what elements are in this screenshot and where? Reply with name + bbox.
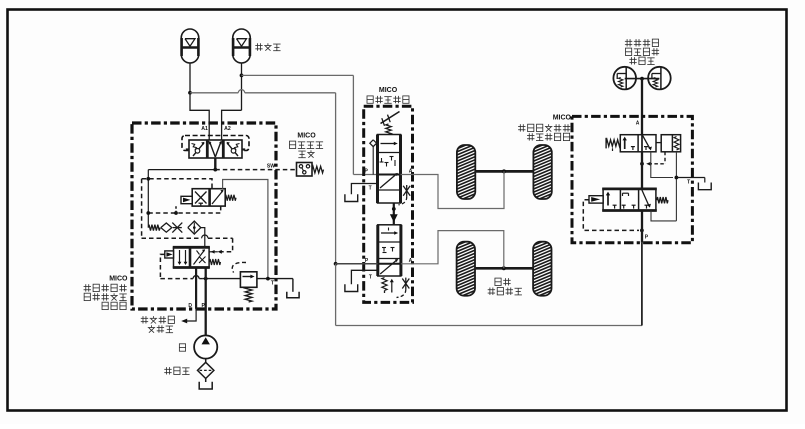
- wire T to tank: [676, 177, 704, 179]
- node pilot tap: [640, 162, 644, 166]
- check valve diamond: [161, 223, 172, 232]
- node SW junction: [213, 168, 217, 172]
- wire bottom loop to parking valve: [336, 325, 642, 327]
- U6 dashed auto-control pilot: [583, 200, 639, 231]
- node front axle: [502, 169, 506, 173]
- U3-U4 interstage line: [393, 203, 395, 225]
- pilot valve U2a dashed supply line: [142, 179, 212, 189]
- relief valve RV1: [240, 272, 257, 288]
- wire A1 feed: [190, 93, 209, 140]
- svg-text:A: A: [409, 169, 413, 175]
- U5 drain to T: [651, 152, 673, 178]
- dashed drain line: [148, 206, 220, 213]
- rear axle: [475, 267, 533, 270]
- dashed left riser: [141, 179, 143, 238]
- wire U2a return loop: [223, 180, 268, 279]
- wire from SW node left and down: [148, 169, 215, 171]
- MICO accumulator charging valve dash-dot box: [132, 123, 276, 309]
- wire A line through box: [641, 135, 643, 152]
- wire SW dashed to pressure switch: [215, 169, 296, 171]
- pressure switch S1: [297, 163, 313, 177]
- spool pilot right: [209, 251, 217, 253]
- svg-text:SW: SW: [267, 164, 275, 170]
- front axle: [475, 170, 533, 173]
- shuttle/check valve U1 pilot dashed box: [182, 136, 249, 151]
- T line to relief: [203, 278, 241, 280]
- wire to rear axle: [401, 231, 504, 269]
- U3 throttle X: [403, 186, 410, 196]
- svg-text:D: D: [188, 303, 192, 309]
- spring brake B1: [613, 67, 636, 90]
- suction filter F2: [198, 362, 214, 378]
- accumulator ACC2: [233, 29, 251, 63]
- label accumulator 蓄能器: [256, 43, 258, 50]
- pilot arrow box: [181, 196, 192, 203]
- accumulator ACC1: [181, 29, 199, 63]
- node brake tee: [640, 77, 644, 81]
- svg-text:MICO: MICO: [297, 133, 316, 140]
- U4 T drain: [351, 270, 377, 284]
- dashed drain left of spool: [160, 254, 164, 278]
- node acc2 junction: [240, 74, 244, 78]
- wire down to bottom loop: [335, 264, 337, 326]
- wire P port bold to pump: [205, 268, 207, 336]
- node lower valve P tap: [334, 262, 338, 266]
- wire shuttle out: [214, 158, 216, 170]
- charging spool U2 body: [174, 247, 210, 267]
- node acc1 junction: [188, 91, 192, 95]
- P-A line through U3: [378, 174, 401, 176]
- tank T4: [345, 284, 358, 291]
- wire row to spool: [201, 228, 205, 248]
- MICO parking brake valve dash-dot box: [572, 116, 692, 242]
- svg-text:A: A: [409, 258, 413, 264]
- P-A line through U4: [336, 263, 378, 265]
- U5 solenoid/pilot block right: [661, 135, 680, 152]
- dashed pilot sense line: [142, 237, 202, 239]
- node rear axle: [502, 266, 506, 270]
- check/orifice/filter row: [148, 225, 160, 231]
- label spring brake: [626, 39, 628, 46]
- to other systems arrow: [185, 309, 196, 321]
- wire to front axle: [401, 171, 505, 208]
- node auto pilot tap: [640, 229, 644, 233]
- wire brakes to parking valve: [641, 79, 643, 135]
- svg-text:T: T: [687, 179, 690, 185]
- svg-text:A: A: [636, 120, 640, 126]
- lower modulating valve U4 body: [378, 225, 401, 276]
- wire acc2 stem: [241, 63, 243, 110]
- svg-text:T: T: [369, 185, 372, 191]
- node dashed tap: [146, 177, 150, 181]
- wire acc1 stem: [189, 63, 191, 93]
- tank T1: [287, 292, 299, 298]
- svg-text:A1: A1: [201, 126, 208, 132]
- spring right of U2a: [225, 195, 236, 201]
- node T junction: [675, 176, 679, 180]
- pump P1: [194, 335, 217, 358]
- U5 dashed pilot: [664, 152, 666, 164]
- node pilot drain join: [266, 277, 270, 281]
- svg-text:T: T: [369, 274, 372, 280]
- U6 pilot arrow box left: [589, 196, 603, 203]
- spring brake B2: [648, 67, 671, 90]
- tank T5: [698, 183, 711, 190]
- svg-text:MICO: MICO: [109, 276, 128, 283]
- relief pilot dashed: [232, 262, 246, 272]
- U3 left diamond: [370, 140, 377, 147]
- wire relief to tank: [257, 278, 293, 280]
- U3 body: [378, 135, 401, 204]
- spring of switch: [312, 166, 324, 173]
- svg-text:MICO: MICO: [379, 87, 398, 94]
- MICO dual modulating valve dash-dot box: [364, 106, 413, 302]
- wire pump to filter: [205, 359, 207, 364]
- U3 T drain to tank: [351, 184, 377, 195]
- upper modulating valve U3 pedal lever: [381, 112, 400, 124]
- wire acc1 pressure line to modulating valve (long): [190, 92, 238, 94]
- spool left arrow box: [165, 251, 174, 258]
- U4 spring below: [382, 278, 387, 291]
- U6 spring right: [657, 197, 668, 203]
- wire between brakes: [625, 78, 660, 80]
- pilot valve U2a body: [192, 189, 225, 206]
- wire P line down: [641, 211, 643, 243]
- tank T2: [199, 382, 212, 389]
- shuttle/check valve U1 body: [189, 140, 242, 158]
- wire D port bold: [195, 268, 197, 309]
- U5 spring left: [605, 138, 607, 149]
- node P tap for relief: [204, 277, 208, 281]
- parking spool U6 body: [603, 189, 656, 211]
- U3 spring under pedal: [386, 124, 392, 135]
- U4 check arrow: [391, 281, 393, 290]
- tank T3: [345, 194, 358, 201]
- svg-text:MICO: MICO: [553, 115, 572, 122]
- filter F1: [188, 221, 201, 234]
- orifice X: [172, 223, 182, 233]
- wire acc2 pressure line: [242, 74, 354, 76]
- label dual brake system: [495, 278, 501, 285]
- U6 drain loop: [651, 211, 676, 221]
- U4 throttle X: [402, 279, 409, 289]
- spool spring: [209, 259, 220, 265]
- svg-text:A2: A2: [224, 126, 231, 132]
- wire filter to tank: [205, 379, 207, 383]
- wire A2 feed: [222, 110, 242, 140]
- parking pilot valve U5 body: [620, 135, 656, 152]
